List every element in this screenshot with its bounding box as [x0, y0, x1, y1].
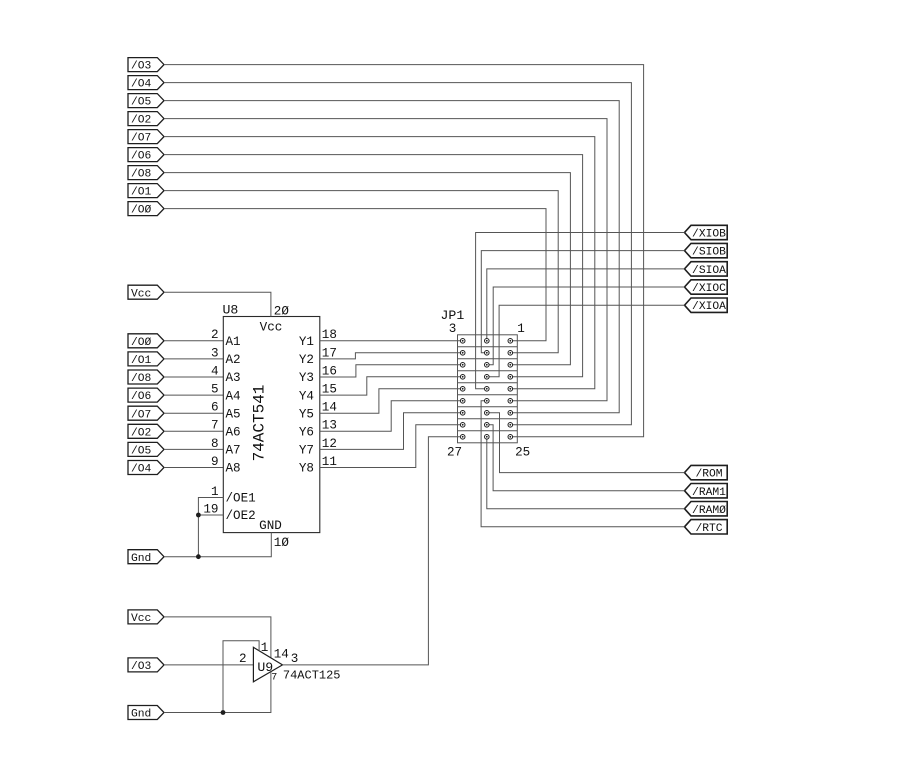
- svg-text:A1: A1: [226, 335, 241, 349]
- JP1 pin row 2 right: [508, 351, 513, 356]
- svg-text:/XIOC: /XIOC: [692, 283, 726, 295]
- wire /O6 to U8 pin A4: [164, 394, 223, 396]
- svg-text:1: 1: [261, 641, 269, 655]
- svg-text:/O3: /O3: [131, 61, 152, 73]
- wire /O4 to U8 pin A8: [164, 467, 223, 469]
- svg-text:3: 3: [449, 322, 457, 336]
- svg-text:2Ø: 2Ø: [274, 304, 290, 318]
- svg-text:/OØ: /OØ: [131, 337, 152, 349]
- svg-text:Y7: Y7: [299, 444, 314, 458]
- net label /XIOA: [685, 298, 728, 313]
- JP1 pin row 4 middle: [485, 375, 490, 380]
- pin number 2: [239, 652, 247, 666]
- buffer U8 74ACT541 body: [223, 302, 320, 533]
- pin number 1 (/OE1): [211, 485, 219, 499]
- svg-text:5: 5: [211, 383, 219, 397]
- net label /O1 (U8 input A2): [128, 352, 164, 367]
- svg-text:Vcc: Vcc: [131, 613, 151, 625]
- power flag Vcc (U9): [128, 610, 164, 625]
- svg-text:Y6: Y6: [299, 426, 314, 440]
- JP1 pin row 3 left: [460, 363, 465, 368]
- svg-text:3: 3: [211, 346, 219, 360]
- svg-text:18: 18: [322, 328, 337, 342]
- wire Y3 to JP1 row 3 left pin: [320, 365, 461, 377]
- JP1 pin row 7 right: [508, 411, 513, 416]
- svg-text:9: 9: [211, 455, 219, 469]
- JP1 pin row 5 right: [508, 387, 513, 392]
- wire /O1 to JP1 row 2 right pin: [164, 191, 558, 353]
- net label /O8 (top-left): [128, 166, 164, 181]
- JP1 pin row 7 left: [460, 411, 465, 416]
- JP1 pin row 9 middle: [485, 435, 490, 440]
- pin number 18 (Y1): [322, 328, 337, 342]
- pin number 1 (enable): [261, 641, 269, 655]
- wire JP1 row 6 middle pin to /RTC: [481, 401, 684, 527]
- svg-text:/O7: /O7: [131, 409, 151, 421]
- net label /O2 (U8 input A6): [128, 424, 164, 439]
- wire /XIOC to JP1 row 3 middle pin: [489, 287, 684, 365]
- JP1 pin row 8 right: [508, 423, 513, 428]
- pin number 7 (GND): [271, 673, 277, 684]
- pin number 15 (Y4): [322, 383, 337, 397]
- svg-text:/O7: /O7: [131, 133, 151, 145]
- pin number 8: [211, 437, 219, 451]
- svg-text:/O5: /O5: [131, 446, 152, 458]
- svg-text:Y4: Y4: [299, 389, 314, 403]
- svg-text:A4: A4: [226, 389, 241, 403]
- svg-text:A7: A7: [226, 444, 241, 458]
- svg-text:A6: A6: [226, 426, 241, 440]
- JP1 pin row 8 middle: [485, 423, 490, 428]
- svg-text:7: 7: [271, 673, 277, 684]
- svg-text:/OE2: /OE2: [226, 509, 256, 523]
- JP1 pin row 4 left: [460, 375, 465, 380]
- pin number 4: [211, 364, 219, 378]
- svg-text:Y2: Y2: [299, 353, 314, 367]
- wire Gnd to U9 pin 7: [164, 672, 271, 713]
- wire /XIOB to JP1 row 5 middle pin: [476, 233, 685, 389]
- wire Y5 to JP1 row 5 left pin: [320, 389, 461, 413]
- svg-text:2: 2: [239, 652, 247, 666]
- svg-text:/OØ: /OØ: [131, 205, 152, 217]
- svg-text:A5: A5: [226, 407, 241, 421]
- net label /XIOB: [685, 225, 728, 240]
- net label /O6 (U8 input A4): [128, 388, 164, 403]
- wire /O4 to JP1 row 8 right pin: [164, 83, 631, 425]
- pin number 20: [274, 304, 290, 318]
- net label /O0 (top-left): [128, 202, 164, 217]
- power flag Vcc (U8): [128, 285, 164, 300]
- svg-text:6: 6: [211, 401, 219, 415]
- net label /O6 (top-left): [128, 148, 164, 163]
- wire /O8 to U8 pin A3: [164, 376, 223, 378]
- svg-text:Y5: Y5: [299, 407, 314, 421]
- wire Vcc to U8 pin 20: [164, 292, 271, 316]
- pin number 14 (Y5): [322, 401, 337, 415]
- wire /O3 to JP1 row 9 right pin: [164, 65, 644, 437]
- tri-state buffer U9 74ACT125: [253, 647, 282, 682]
- svg-text:/O4: /O4: [131, 79, 152, 91]
- svg-text:27: 27: [447, 445, 462, 459]
- svg-text:1: 1: [517, 322, 525, 336]
- JP1 pin row 1 right: [508, 339, 513, 344]
- pin number 11 (Y8): [322, 455, 337, 469]
- svg-text:A2: A2: [226, 353, 241, 367]
- wire /XIOA to JP1 row 4 middle pin: [489, 305, 684, 377]
- JP1 pin row 8 left: [460, 423, 465, 428]
- wire /O2 to JP1 row 6 right pin: [164, 119, 607, 401]
- svg-text:Y8: Y8: [299, 462, 314, 476]
- svg-text:Vcc: Vcc: [260, 320, 283, 334]
- svg-text:/ROM: /ROM: [695, 469, 722, 481]
- junction Gnd/enable: [221, 710, 226, 715]
- svg-text:/O2: /O2: [131, 427, 151, 439]
- wire U9 output pin 3 to JP1 row 9 left pin: [283, 437, 461, 665]
- svg-text:74ACT541: 74ACT541: [251, 385, 269, 462]
- net label /O4 (top-left): [128, 76, 164, 91]
- svg-text:Vcc: Vcc: [131, 288, 151, 300]
- pin number 7: [211, 419, 219, 433]
- power flag Gnd (U9): [128, 706, 164, 721]
- JP1 pin row 6 left: [460, 399, 465, 404]
- net label /SIOA: [685, 262, 728, 277]
- net label /RAM0: [685, 502, 728, 517]
- net label /O5 (top-left): [128, 94, 164, 109]
- wire /O2 to U8 pin A6: [164, 430, 223, 432]
- wire /O3 to U9 pin 2: [164, 664, 253, 666]
- svg-text:1: 1: [211, 485, 219, 499]
- net label /SIOB: [685, 243, 728, 258]
- net label /RAM1: [685, 484, 728, 499]
- wire /SIOA to JP1 row 1 middle pin: [487, 269, 685, 339]
- svg-text:Y1: Y1: [299, 335, 314, 349]
- svg-text:7: 7: [211, 419, 219, 433]
- svg-text:/O1: /O1: [131, 187, 152, 199]
- pin number 10: [274, 536, 290, 550]
- svg-text:11: 11: [322, 455, 337, 469]
- pin number 3: [211, 346, 219, 360]
- net label /O7 (top-left): [128, 130, 164, 145]
- svg-text:74ACT125: 74ACT125: [283, 668, 341, 682]
- power flag Gnd (U8): [128, 550, 164, 565]
- net label /O1 (top-left): [128, 184, 164, 199]
- wire Y2 to JP1 row 2 left pin: [320, 353, 461, 359]
- svg-text:/O6: /O6: [131, 391, 152, 403]
- wire /O5 to JP1 row 7 right pin: [164, 101, 619, 413]
- svg-text:/O5: /O5: [131, 97, 152, 109]
- wire JP1 row 7 middle pin to /ROM: [489, 413, 684, 473]
- JP1 pin row 7 middle: [485, 411, 490, 416]
- svg-text:A3: A3: [226, 371, 241, 385]
- JP1 pin row 3 right: [508, 363, 513, 368]
- JP1 pin row 1 middle: [485, 339, 490, 344]
- svg-text:13: 13: [322, 419, 337, 433]
- svg-text:/O4: /O4: [131, 464, 152, 476]
- net label /O2 (top-left): [128, 112, 164, 127]
- svg-text:16: 16: [322, 364, 337, 378]
- JP1 pin row 5 middle: [485, 387, 490, 392]
- wire Y6 to JP1 row 6 left pin: [320, 401, 461, 432]
- wire /O8 to JP1 row 3 right pin: [164, 173, 570, 365]
- svg-text:19: 19: [203, 502, 218, 516]
- svg-text:/XIOA: /XIOA: [692, 301, 726, 313]
- wire Y8 to JP1 row 8 left pin: [320, 425, 461, 468]
- svg-text:/O8: /O8: [131, 373, 152, 385]
- junction at /OE2: [196, 513, 201, 518]
- svg-text:/O6: /O6: [131, 151, 152, 163]
- svg-text:A8: A8: [226, 462, 241, 476]
- JP1 pin row 4 right: [508, 375, 513, 380]
- svg-text:GND: GND: [259, 519, 282, 533]
- wire /O7 to JP1 row 5 right pin: [164, 137, 595, 389]
- wire JP1 row 8 middle pin to /RAM1: [489, 425, 684, 491]
- svg-text:8: 8: [211, 437, 219, 451]
- net label /XIOC: [685, 280, 728, 295]
- svg-text:17: 17: [322, 346, 337, 360]
- JP1 pin row 9 left: [460, 435, 465, 440]
- svg-text:/O8: /O8: [131, 169, 152, 181]
- JP1 pin row 6 middle: [485, 399, 490, 404]
- pin number 5: [211, 383, 219, 397]
- wire /SIOB to JP1 row 2 middle pin: [481, 251, 684, 353]
- pin number 9: [211, 455, 219, 469]
- pin number 17 (Y2): [322, 346, 337, 360]
- wire /O6 to JP1 row 4 right pin: [164, 155, 583, 377]
- svg-text:/O3: /O3: [131, 661, 152, 673]
- net label /O4 (U8 input A8): [128, 461, 164, 476]
- wire Y4 to JP1 row 4 left pin: [320, 377, 461, 395]
- pin number 12 (Y7): [322, 437, 337, 451]
- pin number 2: [211, 328, 219, 342]
- svg-text:2: 2: [211, 328, 219, 342]
- pin number 19 (/OE2): [203, 502, 218, 516]
- svg-text:Y3: Y3: [299, 371, 314, 385]
- JP1 pin row 1 left: [460, 339, 465, 344]
- pin number 14: [274, 648, 289, 662]
- JP1 pin row 2 left: [460, 351, 465, 356]
- net label /O3 (U9 input): [128, 658, 164, 673]
- net label /O7 (U8 input A5): [128, 406, 164, 421]
- pin number 3 (output): [291, 652, 299, 666]
- JP1 pin row 3 middle: [485, 363, 490, 368]
- connector JP1 body: [441, 308, 531, 459]
- wire Y1 to JP1 row 1 left pin: [320, 340, 461, 342]
- net label /RTC: [685, 520, 728, 535]
- label 74ACT125: [283, 668, 341, 682]
- junction at Gnd wire: [196, 554, 201, 559]
- svg-text:12: 12: [322, 437, 337, 451]
- svg-text:/SIOA: /SIOA: [692, 265, 726, 277]
- pin number 6: [211, 401, 219, 415]
- wire /O5 to U8 pin A7: [164, 448, 223, 450]
- svg-text:4: 4: [211, 364, 219, 378]
- wire Y7 to JP1 row 7 left pin: [320, 413, 461, 450]
- pin number 13 (Y6): [322, 419, 337, 433]
- svg-text:14: 14: [322, 401, 337, 415]
- svg-text:/RTC: /RTC: [695, 523, 722, 535]
- svg-text:/O2: /O2: [131, 115, 151, 127]
- wire Vcc to U9 pin 14: [164, 617, 271, 658]
- svg-text:Gnd: Gnd: [131, 709, 151, 721]
- wire /O7 to U8 pin A5: [164, 412, 223, 414]
- wire Gnd to U8 pin 10: [164, 533, 271, 557]
- svg-text:/RAM1: /RAM1: [692, 487, 726, 499]
- svg-text:/XIOB: /XIOB: [692, 229, 726, 241]
- wire /O0 to U8 pin A1: [164, 340, 223, 342]
- svg-text:1Ø: 1Ø: [274, 536, 290, 550]
- svg-text:/OE1: /OE1: [226, 492, 256, 506]
- wire /O0 to JP1 row 1 right pin: [164, 209, 546, 341]
- net label /O0 (U8 input A1): [128, 334, 164, 349]
- JP1 pin row 2 middle: [485, 351, 490, 356]
- JP1 pin row 6 right: [508, 399, 513, 404]
- svg-text:25: 25: [515, 445, 530, 459]
- svg-text:3: 3: [291, 652, 299, 666]
- svg-text:/SIOB: /SIOB: [692, 247, 726, 259]
- net label /ROM: [685, 465, 728, 480]
- svg-text:/O1: /O1: [131, 355, 152, 367]
- svg-text:JP1: JP1: [441, 308, 465, 323]
- net label /O8 (U8 input A3): [128, 370, 164, 385]
- net label /O5 (U8 input A7): [128, 442, 164, 457]
- svg-text:14: 14: [274, 648, 289, 662]
- JP1 pin row 5 left: [460, 387, 465, 392]
- svg-text:U8: U8: [223, 302, 239, 317]
- svg-text:15: 15: [322, 383, 337, 397]
- wire enable pin 1 tied to ground loop: [223, 641, 259, 713]
- wire ground to /OE1 /OE2: [198, 498, 223, 557]
- JP1 pin row 9 right: [508, 435, 513, 440]
- wire /O1 to U8 pin A2: [164, 358, 223, 360]
- net label /O3 (top-left): [128, 58, 164, 73]
- wire JP1 row 9 middle pin to /RAM0: [487, 439, 685, 509]
- pin number 16 (Y3): [322, 364, 337, 378]
- svg-text:/RAMØ: /RAMØ: [692, 505, 726, 517]
- svg-text:Gnd: Gnd: [131, 553, 151, 565]
